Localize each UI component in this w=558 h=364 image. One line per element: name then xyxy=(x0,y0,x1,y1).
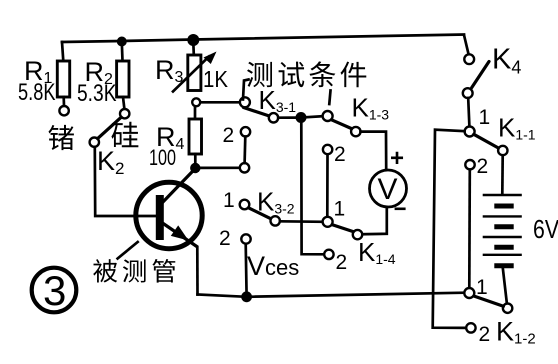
node below R3 xyxy=(192,98,200,106)
node K1-3 throw contact xyxy=(351,127,360,136)
node silicon contact xyxy=(120,109,129,118)
wire junction to K1-3 pole xyxy=(307,116,323,117)
leader right xyxy=(329,91,330,105)
junction Vces xyxy=(241,291,252,302)
wire bottom bus xyxy=(198,293,464,297)
resistor R2 xyxy=(117,61,129,97)
switch K1-3 blade xyxy=(332,120,352,129)
wire R2 top lead xyxy=(120,42,123,61)
svg-text:2: 2 xyxy=(336,251,348,274)
wire K3-1 throw to junction xyxy=(278,116,296,119)
wire K4 to K1-1 pole xyxy=(468,98,469,126)
voltmeter U1 xyxy=(370,170,407,207)
node K1-4 throw contact xyxy=(353,230,362,239)
svg-text:1: 1 xyxy=(479,106,491,129)
svg-text:5.3K: 5.3K xyxy=(77,80,117,107)
R3 arrow xyxy=(173,57,209,92)
node K1-1 throw contact xyxy=(498,146,507,155)
emitter arrowhead xyxy=(171,225,189,240)
leader left xyxy=(243,80,249,100)
resistor R1 xyxy=(57,61,69,97)
node K3-2 throw contact xyxy=(271,216,280,225)
svg-text:3: 3 xyxy=(43,267,66,314)
node K1-2 throw contact xyxy=(503,304,512,313)
svg-text:2: 2 xyxy=(223,124,235,147)
wire K1-1 throw to battery xyxy=(501,155,504,194)
node K3-2 contact 2 xyxy=(241,234,250,243)
figure number 3 xyxy=(32,268,77,313)
svg-text:2: 2 xyxy=(479,323,491,346)
node connector contact xyxy=(240,163,249,172)
node K4 top contact xyxy=(464,54,474,64)
wire top bus xyxy=(62,35,464,43)
wire R4 bottom lead xyxy=(194,154,197,164)
svg-text:1: 1 xyxy=(334,198,346,221)
wire node to R4 xyxy=(194,106,197,119)
switch K4 blade xyxy=(472,62,489,88)
node K1-4 contact 2 xyxy=(324,250,333,259)
label transistor under test xyxy=(93,259,175,283)
label silicon xyxy=(111,122,138,148)
wire junction A to K1-4 contact2 xyxy=(301,123,324,254)
junction below R4 xyxy=(190,163,200,173)
transistor Q1 circle xyxy=(136,182,202,248)
battery BT1 xyxy=(483,195,522,266)
resistor R4 xyxy=(189,119,202,154)
wire R1 top lead xyxy=(62,42,63,61)
wire voltmeter minus to K1-4 throw xyxy=(362,207,387,234)
svg-text:2: 2 xyxy=(219,227,231,250)
junction top of R2 xyxy=(117,37,127,47)
label test conditions xyxy=(247,61,366,87)
wire battery to K1-2 throw xyxy=(503,268,507,304)
svg-text:1K: 1K xyxy=(203,66,229,92)
wire K2 to base xyxy=(95,147,157,216)
wire top bus to K4 xyxy=(464,35,469,54)
svg-text:V: V xyxy=(378,173,398,206)
junction top of R3 xyxy=(187,34,199,46)
switch K1-1 blade xyxy=(474,134,499,148)
svg-text:6V: 6V xyxy=(533,214,558,244)
label germanium xyxy=(48,125,73,150)
switch K1-4 pole xyxy=(323,217,333,227)
svg-text:Vces: Vces xyxy=(247,251,299,281)
wire K3-2 to K1-4 pole xyxy=(280,220,323,223)
node K4 bottom contact xyxy=(463,88,473,98)
switch K2 pivot xyxy=(90,138,99,147)
wire contact2 to connector xyxy=(243,137,246,164)
wire K1-1 contact2 to K1-2 pole xyxy=(468,170,471,288)
svg-text:100: 100 xyxy=(149,145,176,170)
wire node to K3-1 xyxy=(201,101,241,104)
svg-text:1: 1 xyxy=(223,189,235,212)
transistor base bar xyxy=(156,195,164,240)
svg-text:2: 2 xyxy=(334,143,346,166)
node K1-3 contact 2 xyxy=(323,145,332,154)
switch K1-2 blade xyxy=(474,296,504,306)
switch K3-1 pole xyxy=(240,97,250,107)
switch K1-3 pole xyxy=(323,111,333,121)
switch K1-4 blade xyxy=(332,225,353,232)
switch K2 blade xyxy=(98,117,122,138)
junction node A xyxy=(296,112,307,123)
wire R3 top lead xyxy=(192,42,195,55)
wire Vces contact down xyxy=(244,244,248,296)
wire K1-3 contact2 to K1-4 pole xyxy=(326,154,329,216)
switch K3-1 blade xyxy=(244,108,270,117)
wire emitter down xyxy=(196,247,199,295)
svg-text:5.8K: 5.8K xyxy=(18,79,56,106)
voltmeter minus sign xyxy=(395,208,406,211)
svg-text:1: 1 xyxy=(476,276,488,299)
leader to transistor xyxy=(118,242,138,259)
node K1-1 contact 2 xyxy=(465,160,474,169)
wire K1-3 to voltmeter plus xyxy=(361,132,387,169)
transistor collector lead xyxy=(161,169,195,205)
switch K1-1 pole xyxy=(465,127,475,137)
rheostat R3 xyxy=(188,55,201,91)
wire R2 bottom lead xyxy=(123,97,124,109)
switch K1-2 pole xyxy=(464,288,474,298)
node germanium contact xyxy=(59,106,68,115)
wire junction to connector contact xyxy=(200,166,240,169)
node K3-1 throw contact xyxy=(269,113,278,122)
switch K3-2 blade xyxy=(249,208,272,219)
node K3-1 contact 2 xyxy=(241,127,250,136)
wire K1-1 pole to K1-2 contact2 xyxy=(433,130,467,328)
node K1-2 contact 2 xyxy=(466,323,475,332)
switch K3-2 pole xyxy=(240,200,250,210)
svg-text:+: + xyxy=(390,145,404,172)
svg-text:2: 2 xyxy=(477,155,489,178)
wire R1 bottom lead xyxy=(62,97,65,106)
transistor emitter lead xyxy=(161,222,197,247)
